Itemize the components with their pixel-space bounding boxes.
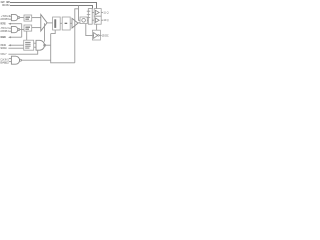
wire box1 to box2 [60,22,62,24]
wire osc out with left arrow [10,44,24,46]
wire gate3 input b [9,61,11,63]
wire Q output [101,11,103,13]
wire gate1 input a [9,15,11,17]
divider tall box [88,9,92,25]
wire R pin second rail [10,6,93,9]
box A edge detect [24,15,32,21]
gate U4 nand [36,40,45,50]
svg-text:VDD 14: VDD 14 [0,46,7,50]
wire long feedback vertical [75,9,79,63]
or-gate U3 big triangle [41,15,47,32]
wire ext reset with left arrow [10,36,22,38]
wire inverter output [99,34,101,36]
oscillator box with circle [80,17,87,24]
wire gate1 input b [9,18,11,20]
gate U1 nand [11,14,17,20]
wire box2 to buffer triangle [70,22,72,24]
svg-text:ASTAB 4: ASTAB 4 [0,29,9,33]
wire vss line with hook up [8,50,37,54]
wire logic box to nand U4 lower [34,46,36,48]
box B edge detect [24,25,32,31]
wire box1 bottom pin to vertical [51,30,56,34]
wire vertical to bottom rail [51,34,75,63]
wire logic box to nand U4 upper [34,42,36,44]
wire U2 output to box B [20,29,24,31]
buffer U6 triangle [72,18,78,28]
wire U6 to oscillator box [78,22,80,24]
wire U3 output to box 1 [47,22,53,24]
wire gate2 input b [9,30,11,32]
wire U5 output to bottom rail [22,59,51,61]
box 1 counter stage [53,17,61,30]
wire divider to buffer Q [92,11,94,13]
wire gate3 input a [9,58,11,60]
wire RC common drop to oscillator [79,6,81,21]
wire retrigger with left arrow [10,23,22,25]
svg-text:10 Q: 10 Q [103,18,108,22]
inverter box U7 [92,30,100,40]
svg-text:RESET9: RESET9 [0,35,6,39]
svg-text:RC COM: RC COM [2,3,9,7]
wire divider to buffer Qbar [92,19,94,21]
divider input stubs [87,11,90,17]
wire C pin top rail [10,3,97,9]
svg-text:11 Q: 11 Q [103,10,108,14]
wire oscillator tap down to inverter [86,24,94,36]
wire box B to or-gate [32,27,41,29]
wire Qbar output [101,19,103,21]
buffer box Qbar [94,16,101,24]
wire U4 output [46,44,51,46]
gate U5 and [11,56,19,64]
wire gate2 input a [9,27,11,29]
wire box B down to logic box [26,31,28,40]
svg-text:VSS 7: VSS 7 [0,52,7,56]
buffer box Q [94,9,101,17]
wire vdd into logic box [8,47,23,49]
svg-text:ASTAB 5: ASTAB 5 [0,17,9,21]
wire retrigger vertical tie [21,24,23,38]
wire Qbar box down to inverter box [96,24,98,30]
svg-text:ENABLE 2: ENABLE 2 [0,60,9,64]
logic box with text lines [24,40,34,50]
svg-text:RETRIG: RETRIG [0,22,6,26]
gate U2 nand [11,26,17,32]
wire U3 output branch down to U4 top [44,23,46,41]
box 2 counter stage [62,17,70,30]
svg-text:13 OSC: 13 OSC [102,33,109,37]
wire box A to or-gate [32,17,41,19]
wire U1 output to box A [20,17,24,19]
wire oscillator to divider [87,19,88,21]
